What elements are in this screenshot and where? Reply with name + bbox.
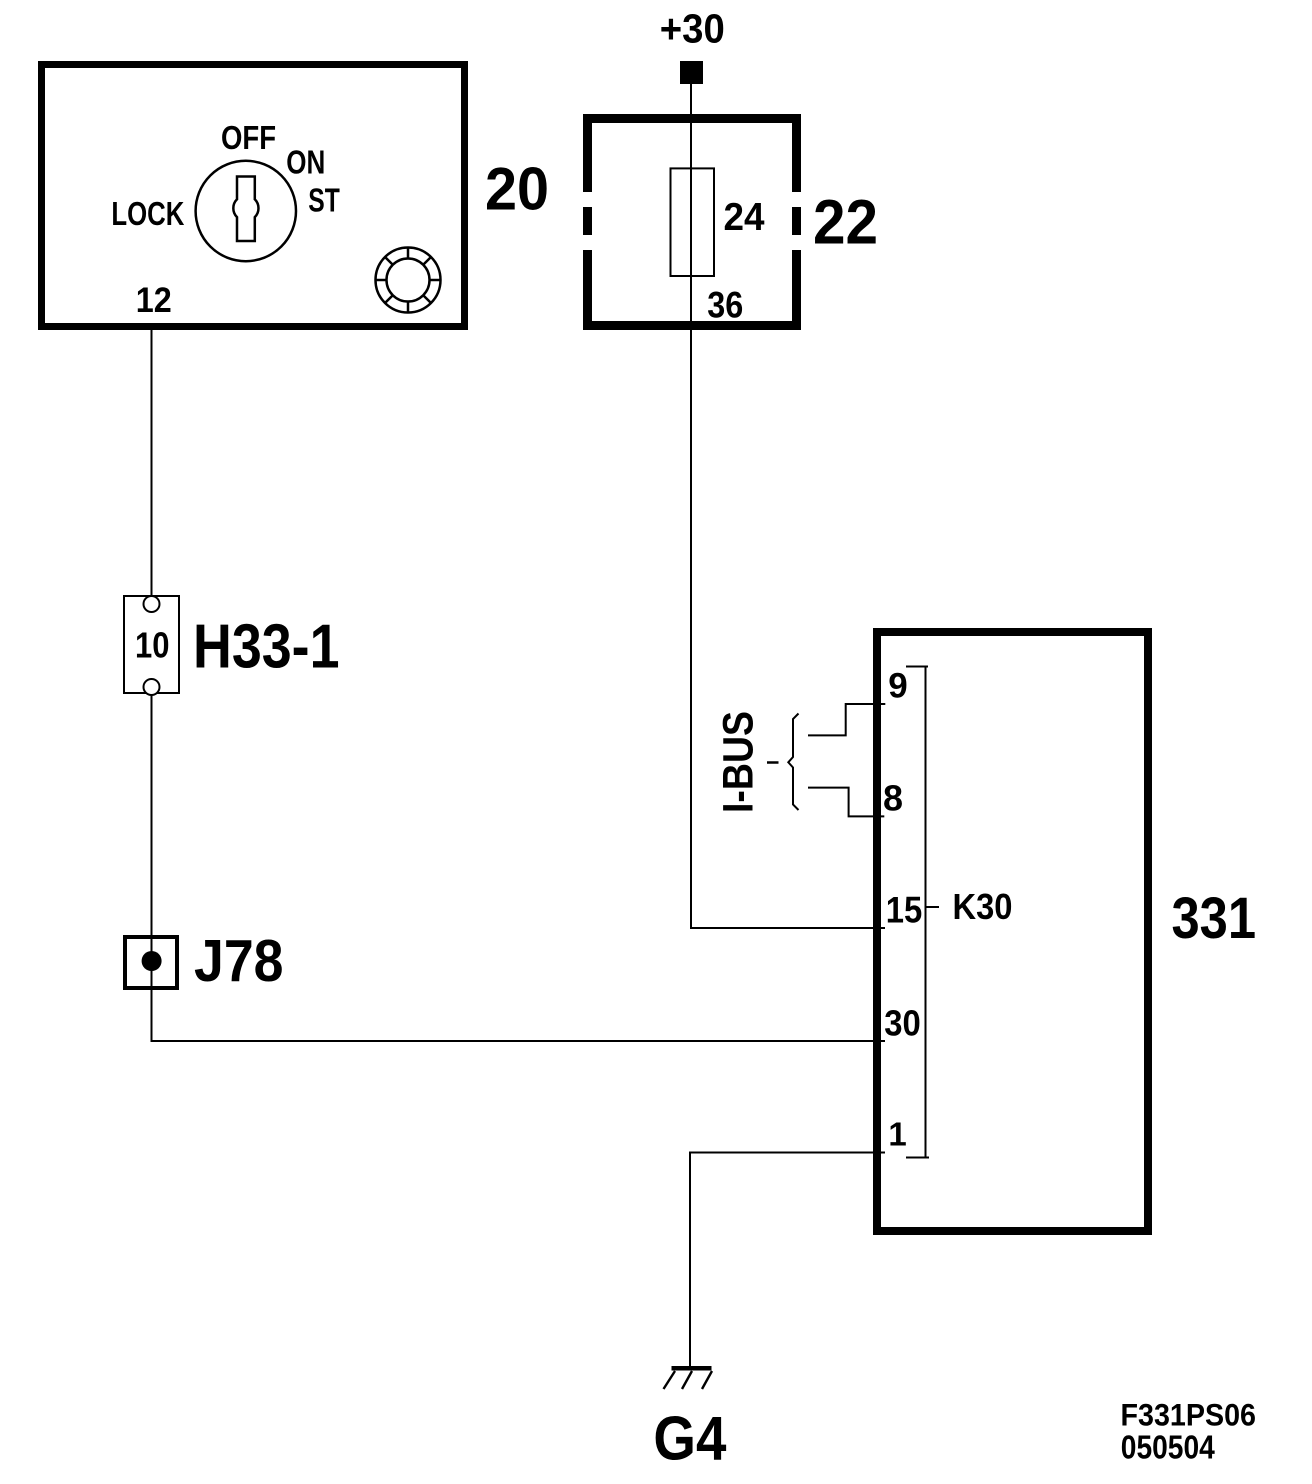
svg-text:9: 9 [888,667,907,706]
svg-text:20: 20 [485,155,549,222]
svg-text:050504: 050504 [1121,1429,1216,1466]
svg-text:G4: G4 [653,1405,726,1474]
svg-text:ST: ST [308,182,340,219]
svg-text:24: 24 [724,196,765,239]
svg-text:8: 8 [883,777,903,818]
svg-text:1: 1 [888,1116,906,1153]
svg-text:K30: K30 [953,886,1013,927]
svg-text:LOCK: LOCK [111,195,184,232]
svg-text:12: 12 [136,281,172,320]
svg-text:H33-1: H33-1 [193,611,340,681]
svg-text:ON: ON [286,144,325,181]
svg-text:+30: +30 [660,6,725,52]
svg-text:I-BUS: I-BUS [716,711,763,813]
svg-text:30: 30 [884,1002,921,1043]
svg-text:331: 331 [1172,886,1257,951]
svg-text:36: 36 [707,284,743,325]
svg-text:10: 10 [135,625,170,666]
svg-text:J78: J78 [194,927,284,994]
svg-text:15: 15 [886,889,923,930]
svg-text:22: 22 [813,188,878,258]
svg-text:F331PS06: F331PS06 [1121,1397,1257,1433]
svg-text:OFF: OFF [221,119,276,156]
